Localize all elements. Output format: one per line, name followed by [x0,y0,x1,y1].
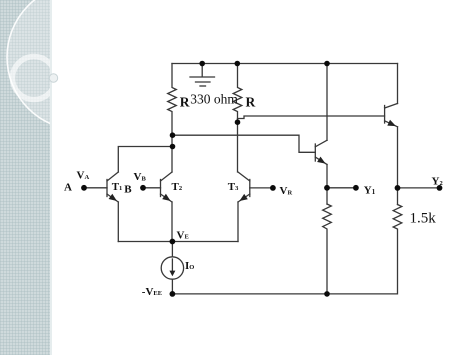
svg-text:-VEE: -VEE [142,286,162,298]
arrow T5 emitter [387,120,396,126]
svg-text:VA: VA [77,170,90,182]
current source I0 [161,242,183,294]
node T4 emitter / Y1 [324,185,330,191]
arrow T3 emitter [239,194,247,201]
sidebar decorative circles [7,0,153,130]
resistor R2 (right 330 ohm) [233,64,242,173]
svg-text:T1: T1 [112,181,123,193]
svg-text:T2: T2 [172,181,183,193]
emitter arrows [109,120,396,276]
node VR [270,185,276,191]
node R3 bottom [324,291,330,297]
node R2 top [235,61,241,67]
wire top ground rail [172,63,398,65]
node ground tap [199,61,205,67]
svg-text:VR: VR [280,185,293,197]
arrow I0 current source [169,271,175,277]
arrow T1 emitter [109,194,117,201]
svg-text:IO: IO [185,260,194,272]
node T5 emitter / Y2 [395,185,401,191]
node VE [170,239,176,245]
svg-text:Y1: Y1 [364,185,376,197]
transistor T3 (mirrored) [238,172,250,202]
resistor R3 (Y1 pulldown) [323,204,332,294]
node R2 bottom [235,119,241,125]
svg-text:T3: T3 [228,181,239,193]
transistor T2 [161,172,173,202]
wire T1 base input [84,187,107,189]
svg-text:330 ohm: 330 ohm [190,92,238,107]
svg-text:VE: VE [177,229,189,241]
transistor T5 [385,104,398,127]
wire VE rail [118,241,238,243]
resistor R4 (1.5k) [393,205,402,294]
wire base of T4 from R1 node [173,135,316,152]
wire T4 emitter down [326,165,328,205]
node T4 collector top [324,61,330,67]
transistor T1 [107,172,118,202]
node B input [140,185,146,191]
wire T3 emitter down [237,202,239,242]
svg-text:R: R [246,95,256,110]
wire T4 collector up [326,64,328,141]
wire Y2 stub [398,187,440,189]
transistor T4 [315,140,327,164]
svg-text:VB: VB [134,171,147,183]
wire T2 base input [143,187,161,189]
node -VEE join [170,291,176,297]
arrow T2 emitter [162,194,170,201]
wire -VEE bottom rail [172,293,397,295]
wire base of T5 from R2 node [238,116,385,119]
wire T1 collector link [118,147,172,173]
node Y2 terminal [437,185,443,191]
svg-text:B: B [124,184,132,196]
wire T2 emitter down [171,202,173,242]
node Y1 terminal [353,185,359,191]
svg-text:Y2: Y2 [432,176,443,188]
wire T5 collector up [397,64,399,104]
resistor R1 (left 330 ohm) [168,64,177,173]
svg-text:A: A [64,182,72,194]
ground [190,64,215,87]
wire T1 emitter down [117,202,119,242]
node A input [81,185,87,191]
arrow T4 emitter [317,157,326,164]
wire T3 base to VR [250,187,273,189]
svg-text:R: R [180,94,190,109]
wire Y1 stub [327,187,356,189]
svg-text:1.5k: 1.5k [410,211,437,227]
wire T5 emitter down [397,127,399,205]
sidebar template strip [0,0,52,355]
node R1 bottom / T4 base [170,132,176,138]
knob on sidebar edge [49,74,57,82]
node T1 collector join [170,144,176,150]
